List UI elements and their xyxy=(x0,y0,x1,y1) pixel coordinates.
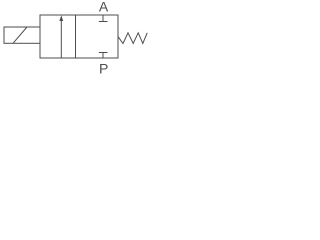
svg-text:P: P xyxy=(99,60,108,76)
svg-text:A: A xyxy=(99,0,109,15)
